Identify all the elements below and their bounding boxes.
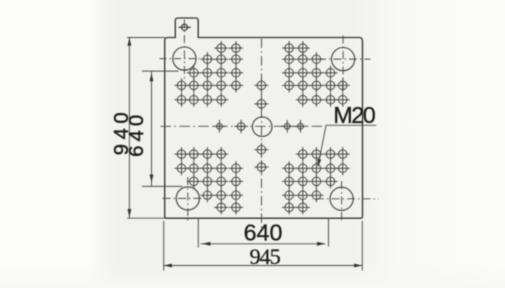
tapped holes bottom-left row4 <box>200 188 243 202</box>
tapped holes top-left row1 <box>214 41 243 55</box>
dim 945 extension line left <box>163 221 165 271</box>
tapped holes bottom-left row3 <box>187 174 243 188</box>
horizontal main centerline <box>161 125 323 127</box>
dim 940 extension line top <box>127 37 165 39</box>
tapped holes bottom-right row2 <box>282 161 350 175</box>
tie-bar hole BR centerline horizontal <box>316 198 379 200</box>
tie-bar hole TR centerline vertical <box>342 36 344 92</box>
svg-text:640: 640 <box>244 219 283 245</box>
tapped holes top-left row3 <box>187 66 243 80</box>
dim 940 extension line bottom <box>127 217 165 219</box>
tie-bar hole BR centerline vertical <box>341 181 343 221</box>
dim 945 dimension line <box>164 265 363 267</box>
dim 640v extension line bottom <box>142 185 183 187</box>
tie-bar hole TR centerline horizontal <box>318 58 371 60</box>
tapped holes bottom-right row4 <box>282 188 323 202</box>
tapped holes bottom-left row1 <box>175 147 229 161</box>
tapped holes top-right row1 <box>282 41 310 55</box>
vertical main centerline <box>261 39 263 232</box>
center locating hole <box>252 117 272 137</box>
tapped holes top-left row2 <box>200 52 243 66</box>
svg-text:M20: M20 <box>333 102 375 128</box>
svg-text:945: 945 <box>250 244 281 269</box>
tie-bar hole bottom-right <box>330 187 353 210</box>
tapped holes top-right row5 <box>296 93 350 107</box>
tie-bar hole BL centerline vertical <box>187 177 189 223</box>
tie-bar hole TL / tab vertical centerline <box>183 20 185 81</box>
tapped holes top-right row2 <box>282 52 323 66</box>
M20 leader shelf line <box>326 124 377 126</box>
tapped holes bottom-right row1 <box>296 147 350 161</box>
tie-bar hole top-left <box>173 47 196 70</box>
dim 940 dimension line <box>128 38 130 219</box>
tie-bar hole TL centerline horizontal <box>160 58 200 60</box>
small holes on horizontal centerline <box>213 120 307 134</box>
tapped holes top-right row3 <box>282 66 337 80</box>
tapped holes on vertical centerline <box>254 78 268 174</box>
tapped holes bottom-left row2 <box>175 161 244 175</box>
dim 945 extension line right <box>361 221 363 271</box>
tie-bar hole bottom-left <box>176 187 199 210</box>
dim 640v extension line top <box>142 70 179 72</box>
svg-text:640: 640 <box>126 111 148 157</box>
lifting lug hole <box>179 24 191 30</box>
dim 640h extension line right <box>328 219 330 247</box>
tie-bar hole top-right <box>332 48 355 71</box>
tapped holes bottom-right row3 <box>282 174 337 188</box>
tapped holes top-left row5 <box>175 93 229 107</box>
platen plate outline <box>165 18 363 218</box>
tapped holes bottom-left row5 <box>214 200 243 214</box>
tie-bar hole BL centerline horizontal <box>163 197 211 199</box>
M20 leader line <box>318 125 326 165</box>
dim 640v dimension line <box>151 71 153 186</box>
dim 640h extension line left <box>197 219 199 248</box>
tapped holes bottom-right row5 <box>282 200 310 214</box>
tapped holes top-right row4 <box>282 78 350 92</box>
tapped holes top-left row4 <box>175 78 244 92</box>
dim 640h dimension line <box>201 243 326 245</box>
